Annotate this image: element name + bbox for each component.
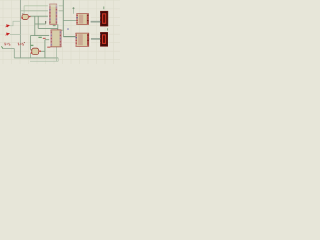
counter U1 (48, 4, 59, 25)
wire logic toggle 1 to gate G1 (10, 21, 21, 25)
wire horizontal y35.6 to U3 (31, 35, 51, 37)
wire horizontal y10.8 (21, 10, 64, 12)
label clock tick green (1, 46, 2, 48)
wire vertical x38.2 (37, 16, 39, 28)
label blue pin number text (67, 28, 69, 30)
wire vertical x34.8 (34, 16, 36, 35)
wire U3 to x63.3 at y30.2 (61, 29, 63, 31)
display DS1 (100, 11, 108, 26)
wire stub below junction (73, 8, 75, 14)
wire to U4 inputs y36.6 (63, 36, 76, 38)
logic toggle input 1 (6, 24, 10, 27)
gate G2 (31, 48, 41, 55)
wire horizontal y24.0 (35, 23, 46, 25)
wire U3 bottom loop x56.4 (55, 47, 57, 62)
wire horizontal y28.4 (38, 27, 58, 29)
wire gate G2 lower input stub (29, 53, 31, 58)
wire U4 to display DS2 (89, 38, 100, 40)
wire vertical to gate G2 input x30.4 (29, 36, 31, 50)
gate G1 (21, 14, 30, 19)
wire gate G2 output (41, 50, 45, 52)
label red text mid (43, 37, 46, 39)
wire bottom horizontal y57.9 (14, 57, 58, 59)
wire U1 to U3 x57.8 (57, 24, 59, 30)
wire clock source horizontal y48.5 (2, 48, 14, 50)
wire logic toggle 2 to vertical net (10, 34, 21, 36)
logic toggle input 2 (6, 33, 10, 36)
wire right end vertical x58.2 (57, 58, 59, 61)
wire gate G1 output to U1 (30, 15, 50, 17)
decoder U2 (76, 14, 90, 25)
schematic background (0, 0, 120, 64)
label gate ref green text (31, 44, 34, 46)
wire feedback to U3 y39.7 (45, 39, 51, 41)
wire feedback vertical x44.9 (44, 40, 46, 58)
label gray speck above gate G1 (22, 13, 24, 15)
label clock text red left (4, 43, 24, 45)
wire stub above display DS1 (103, 7, 105, 10)
counter U3 (49, 30, 63, 47)
label red text under U3 (47, 46, 50, 48)
label dark text under U1 (45, 21, 47, 24)
node junction dot x73.5 (73, 7, 75, 9)
label green text under U1 (53, 25, 56, 27)
wire vertical x63.3 (62, 0, 64, 37)
label net text green mid (38, 36, 41, 38)
wire vertical net left x20.5 (20, 0, 22, 58)
display DS2 (100, 32, 108, 46)
decoder U4 (76, 33, 91, 46)
wire top loop vertical x24.1 (23, 6, 25, 15)
label speck below display DS1 (107, 28, 109, 30)
wire U2 to display DS1 (89, 21, 101, 23)
wire U2 clock input y20.6 (63, 20, 76, 22)
wire top loop horizontal y5.8 (24, 5, 63, 7)
wire clock vertical x14.3 (13, 49, 15, 58)
wire bottom return y61.3 (30, 60, 58, 62)
